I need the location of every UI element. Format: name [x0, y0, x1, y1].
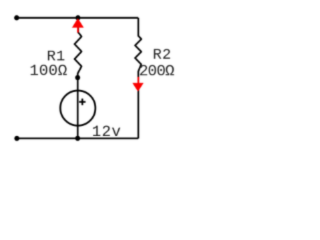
node dot junction top of R1 — [75, 15, 80, 20]
node dot junction bottom — [75, 136, 80, 141]
node dot terminal top-left — [14, 15, 19, 20]
plus sign of source V1 — [79, 99, 86, 106]
current arrow up at R1 — [72, 18, 84, 32]
canvas overlay: redraws the same schematic supersampled for soft look — [0, 0, 189, 156]
wire top horizontal — [17, 17, 138, 19]
node dot junction R1/source — [75, 75, 80, 80]
voltage source V1 circle — [60, 91, 95, 126]
wire bottom horizontal — [17, 137, 138, 139]
node dot terminal bottom-left — [14, 136, 19, 141]
current arrow down at R2 — [132, 77, 143, 92]
wire R1 bottom through source V1 to bottom wire — [77, 78, 79, 139]
resistor R1 — [75, 18, 82, 78]
resistor R2 — [135, 18, 141, 139]
